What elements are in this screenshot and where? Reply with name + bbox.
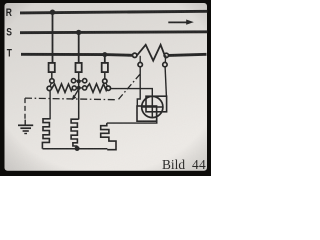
mechanical link dash-dot (diagonal) [119,74,140,99]
photo black frame [0,0,211,176]
bus line R [20,11,208,13]
wire: t2 down to regulator box [165,67,166,96]
caption Bild 44 [162,157,206,172]
wire: instrument down to heater E3 feed [107,112,157,123]
fuse F3 [102,63,108,72]
contact c1 (fuse F3 output) [103,79,107,83]
link b2-center [79,80,83,82]
contact b1 (cluster top-left) [71,79,75,83]
direction arrow on feeder [168,20,194,25]
regulator box upper square [146,96,167,112]
vignette [5,3,208,171]
contact b4 (cluster bottom-right) [83,86,87,90]
bus line T (right of series resistor) [169,54,207,55]
switch bridge c1-c2 [106,83,108,86]
chassis dash-dot line (vertical, to earth) [24,98,26,120]
junction on R [50,10,55,15]
resistor R3 (series regulating resistor in line T) [133,45,169,61]
regulator box lower square [137,106,157,121]
earth / ground [18,120,33,134]
fuse F2 [76,63,82,72]
fuse F1 [49,63,55,72]
heater element E1 [42,119,50,149]
wire: c2 to instrument [111,89,153,97]
junction dot cluster bottom [77,86,81,90]
contact a2 (wiper rail left) [47,86,51,90]
junction on T [102,52,107,57]
tap contact t2 (right, below resistor R3) [163,58,167,67]
junction dot star point [75,146,80,151]
chassis dash-dot line (horizontal) [25,98,115,100]
contact c2 (output to instrument) [106,86,110,90]
wire: below fuse F1 [51,72,53,79]
contact a1 (fuse F1 output) [50,79,54,83]
star-point bus [43,148,108,150]
instrument / regulator head (circle with cross) [142,96,163,117]
wire: below fuse F2 (through switch cluster to heater E2) [78,72,80,120]
wire: t1 down to regulator box [137,67,140,106]
wire: a2 down to heater E1 [49,90,51,119]
wire: T tap [104,55,106,64]
link b1-center [75,80,78,82]
wire: R tap [52,12,54,64]
wiper arrow of resistor r1 [72,89,79,101]
wire: below fuse F3 [104,72,106,79]
resistor r1 (left zigzag) [51,84,72,93]
photo grain overlay [5,3,208,171]
contact b3 (cluster bottom-left) [72,86,76,90]
contact b2 (cluster top-right) [83,79,87,83]
link b4-center [79,87,83,89]
link b3-center [76,87,79,89]
heater element E3 [101,123,116,150]
bus line T (left of series resistor) [21,54,132,55]
switch bridge a1-a2 [50,83,51,87]
heater element E2 [71,119,79,149]
wire: S tap [78,32,80,63]
junction on S [76,30,81,35]
bus line S [20,30,208,34]
tap contact t1 (left, below resistor R3) [138,56,142,67]
junction dot cluster top [77,79,81,83]
resistor r2 (right zigzag) [87,84,108,93]
